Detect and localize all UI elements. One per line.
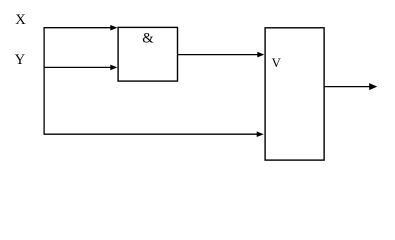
svg-text:V: V [272, 56, 282, 70]
wire Y input to AND gate [44, 66, 115, 68]
wire AND output to OR gate [178, 54, 262, 56]
wire X input to AND gate [44, 27, 115, 29]
wire trunk vertical from X down to bottom branch [43, 27, 45, 134]
svg-text:Y: Y [15, 52, 26, 68]
svg-text:&: & [142, 31, 154, 47]
wire bottom branch to OR gate [44, 133, 262, 135]
OR gate U2 box [265, 28, 324, 160]
AND gate U1 box [118, 27, 177, 81]
svg-text:X: X [15, 12, 26, 28]
wire output from OR gate [324, 86, 373, 88]
